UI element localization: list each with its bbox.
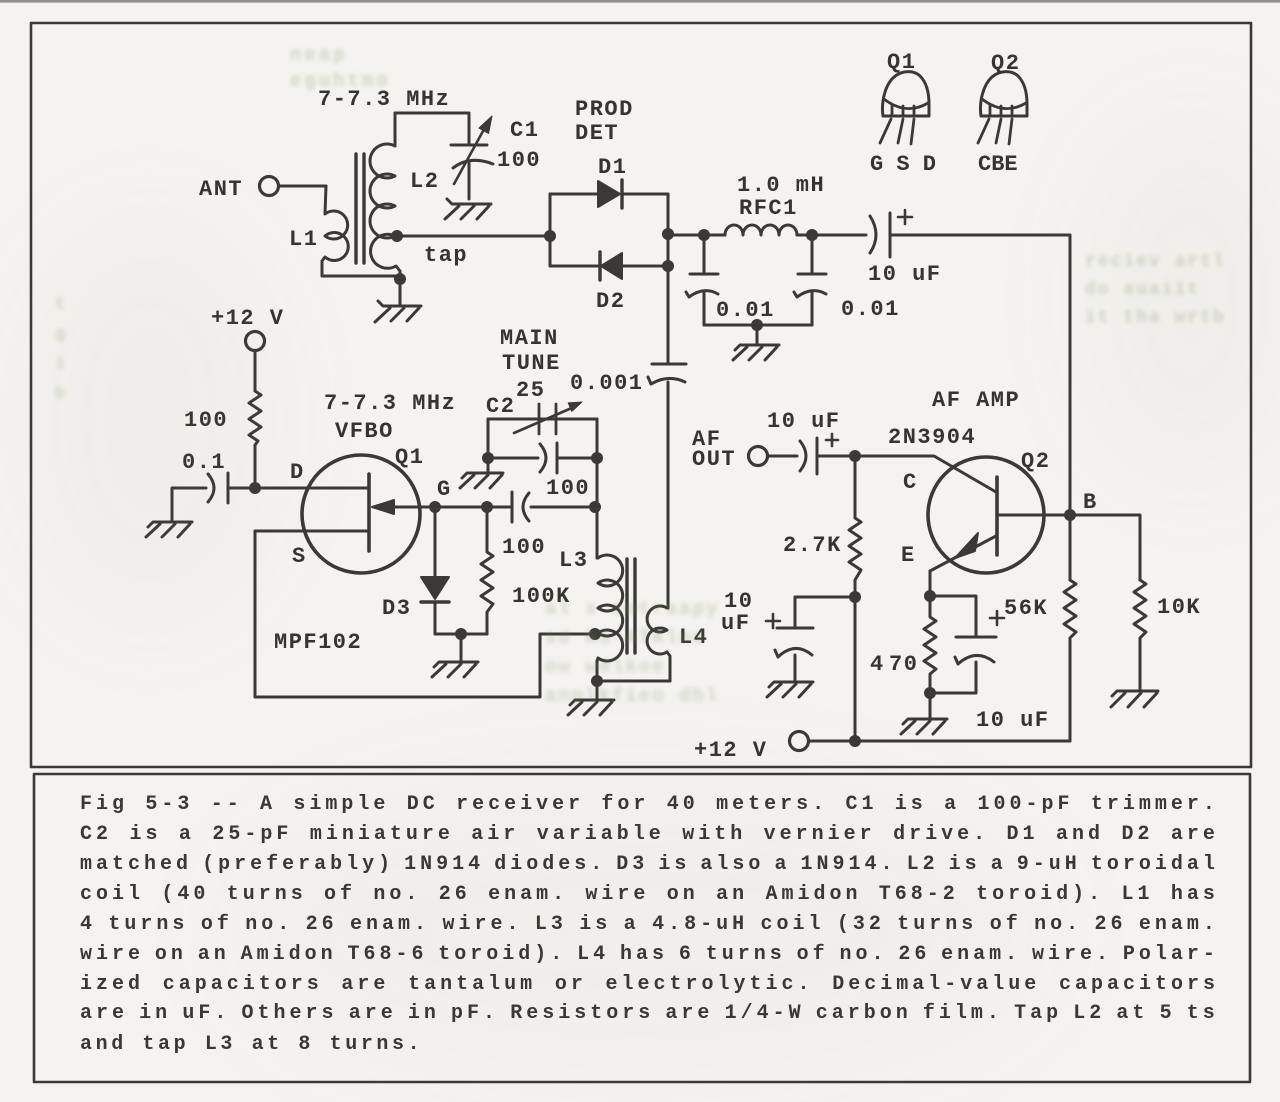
svg-text:D3: D3	[382, 596, 411, 621]
svg-text:0.001: 0.001	[570, 371, 644, 396]
wire diode ring bottom branch	[550, 265, 668, 268]
node base B	[1064, 509, 1076, 521]
svg-text:Q1: Q1	[395, 445, 424, 470]
ground below 0.01 caps	[733, 325, 779, 360]
inductor RFC1	[725, 225, 797, 235]
wire base to 10K	[1070, 515, 1140, 580]
svg-text:DET: DET	[575, 121, 619, 146]
caption line 9	[80, 1033, 1219, 1057]
resistor 10K	[1134, 580, 1146, 691]
ground below 0.1	[146, 522, 192, 537]
node bottom rail junction	[849, 735, 861, 747]
resistor 470	[924, 596, 936, 693]
svg-text:Q2: Q2	[991, 51, 1020, 76]
node AF coupling junction	[849, 450, 861, 462]
svg-text:Q1: Q1	[887, 50, 916, 75]
ground below C2	[460, 473, 503, 488]
wire L1/L2 bottom to ground	[322, 276, 400, 306]
node emitter bottom junction	[924, 687, 936, 699]
ground below 470	[901, 693, 947, 734]
svg-text:TUNE: TUNE	[502, 351, 561, 376]
caption line 4	[80, 883, 1219, 907]
ground below L3	[568, 681, 614, 715]
caption border box	[34, 774, 1250, 1082]
node L3 tap	[589, 628, 601, 640]
wire source down and feedback to L3 tap	[255, 531, 594, 697]
svg-text:100: 100	[502, 535, 546, 560]
transistor Q2 2N3904	[928, 457, 1070, 596]
transformer core L3/L4	[627, 559, 635, 653]
wire diode ring right vertical	[667, 194, 670, 364]
svg-text:25: 25	[516, 378, 545, 403]
wire L2 top to C1	[395, 113, 469, 144]
caption line 2	[80, 823, 1219, 847]
wire right rail down	[1069, 235, 1072, 580]
wire RFC1 to cap	[797, 234, 866, 237]
svg-text:10 uF: 10 uF	[976, 708, 1050, 733]
node L2 bottom junction	[394, 273, 406, 285]
ground below 10K	[1111, 691, 1158, 707]
svg-text:G S D: G S D	[870, 152, 936, 177]
svg-text:ANT: ANT	[199, 177, 243, 202]
node L2 tap	[391, 230, 403, 242]
capacitor 10 uF (VFO supply bypass)	[766, 597, 855, 682]
node 0.01 ground junction	[751, 319, 763, 331]
svg-text:tap: tap	[424, 243, 468, 268]
wire tank vertical	[596, 419, 599, 558]
wire detector output to RFC1	[668, 234, 725, 237]
wire resistor to drain node	[254, 445, 257, 488]
resistor 56K (in right rail)	[1064, 580, 1076, 651]
ground below transformer	[375, 301, 421, 322]
transistor Q1 package pictorial	[880, 72, 929, 144]
svg-text:0.01: 0.01	[716, 298, 775, 323]
svg-text:10 uF: 10 uF	[767, 409, 841, 434]
capacitor 10 uF (AF out coupling)	[768, 434, 855, 474]
page top edge scan line	[0, 0, 1280, 3]
svg-text:100: 100	[546, 476, 590, 501]
svg-text:10 uF: 10 uF	[868, 262, 942, 287]
svg-text:MAIN: MAIN	[500, 326, 559, 351]
svg-text:100: 100	[497, 148, 541, 173]
transformer core	[356, 154, 364, 263]
inductor L2	[370, 113, 400, 279]
svg-text:2N3904: 2N3904	[888, 425, 976, 450]
svg-text:C2: C2	[486, 394, 515, 419]
node diode ring right bottom	[662, 260, 674, 272]
capacitor 0.1 bypass	[172, 473, 228, 522]
node diode ring left	[544, 230, 556, 242]
capacitor C1 (trimmer)	[451, 116, 493, 199]
ground below C1	[445, 199, 491, 219]
svg-text:MPF102: MPF102	[274, 630, 362, 655]
capacitor C2 (main tune) with bracket	[488, 402, 597, 473]
wire gate to C2 node	[435, 506, 512, 509]
resistor 100 (VFO drain)	[249, 391, 261, 445]
terminal AF OUT	[749, 447, 768, 466]
node C2 right	[591, 452, 603, 464]
wire right rail bottom	[1069, 651, 1072, 741]
svg-text:L1: L1	[289, 227, 318, 252]
wire collector lead	[855, 456, 996, 492]
wire 0.01 bottom rail	[704, 324, 812, 327]
svg-text:OUT: OUT	[692, 447, 736, 472]
svg-text:56K: 56K	[1004, 596, 1048, 621]
node RFC1 left	[698, 229, 710, 241]
wire diode ring top branch	[550, 193, 668, 196]
capacitor 0.01 left	[686, 235, 718, 325]
svg-text:4: 4	[870, 652, 885, 677]
node L3 bottom	[591, 675, 603, 687]
ground below D3	[432, 634, 478, 677]
inductor L4	[647, 606, 670, 681]
svg-text:10K: 10K	[1157, 595, 1201, 620]
terminal +12V (VFO)	[246, 332, 265, 351]
wire diode ring left vertical	[549, 194, 552, 266]
node drain	[249, 482, 261, 494]
svg-text:G: G	[437, 477, 452, 502]
caption line 8	[80, 1002, 1219, 1026]
svg-text:C1: C1	[510, 118, 539, 143]
svg-text:S: S	[292, 544, 307, 569]
diode D1	[598, 180, 622, 208]
transistor Q1 MPF102	[228, 455, 435, 573]
wire +12V bottom rail	[809, 740, 1070, 743]
wire L3/L4 bottoms	[597, 661, 670, 681]
caption line 3	[80, 853, 1219, 877]
node emitter junction	[924, 590, 936, 602]
transistor Q2 package pictorial	[978, 72, 1027, 144]
svg-text:D1: D1	[598, 155, 627, 180]
node diode ring right top	[662, 228, 674, 240]
resistor 100K	[481, 507, 493, 634]
node gate D3	[429, 501, 441, 513]
svg-text:AF AMP: AF AMP	[932, 388, 1020, 413]
schematic border box	[31, 23, 1251, 767]
capacitor 10 uF coupling (detector out)	[870, 210, 1070, 257]
svg-text:L3: L3	[559, 548, 588, 573]
terminal +12V (AF)	[790, 732, 809, 751]
capacitor 100 (gate series)	[512, 492, 595, 522]
resistor 2.7K	[849, 456, 861, 741]
svg-text:7-7.3 MHz: 7-7.3 MHz	[324, 391, 456, 416]
svg-text:+12 V: +12 V	[694, 738, 768, 763]
caption line 6	[80, 943, 1219, 967]
wire D3/100K bottom	[435, 633, 487, 636]
inductor L3	[597, 555, 623, 681]
caption line 5	[80, 913, 1219, 937]
inductor L1	[322, 186, 348, 276]
node VFO tank top	[589, 501, 601, 513]
wire +12V to resistor	[254, 351, 257, 391]
ground below supply bypass	[767, 682, 813, 697]
svg-text:CBE: CBE	[978, 152, 1018, 177]
terminal ANT	[260, 177, 279, 196]
node gate 100K	[481, 501, 493, 513]
svg-text:RFC1: RFC1	[739, 196, 798, 221]
svg-text:Q2: Q2	[1021, 449, 1050, 474]
node D3 ground junction	[455, 628, 467, 640]
node RFC1 right	[806, 229, 818, 241]
svg-text:70: 70	[889, 652, 918, 677]
svg-text:D2: D2	[596, 289, 625, 314]
capacitor 10 uF (emitter bypass)	[930, 596, 1004, 693]
node C2 left	[482, 452, 494, 464]
diode D2	[600, 252, 622, 280]
svg-text:VFBO: VFBO	[335, 419, 394, 444]
node 2.7K / 10uF junction	[849, 591, 861, 603]
svg-text:E: E	[901, 543, 916, 568]
svg-text:L2: L2	[410, 169, 439, 194]
wire tap to diode ring	[397, 235, 550, 238]
svg-text:2.7K: 2.7K	[783, 533, 842, 558]
diode D3	[421, 507, 449, 634]
svg-text:D: D	[290, 460, 305, 485]
svg-text:C: C	[903, 470, 918, 495]
caption line 7	[80, 973, 1219, 997]
svg-text:0.01: 0.01	[841, 297, 900, 322]
svg-text:B: B	[1083, 490, 1098, 515]
caption line 1	[80, 793, 1219, 817]
capacitor 0.01 right	[794, 235, 826, 325]
capacitor 100 (tank divider)	[488, 443, 597, 473]
wire ANT to L1	[279, 185, 326, 188]
capacitor 0.001	[648, 364, 686, 608]
svg-text:1.0 mH: 1.0 mH	[737, 173, 825, 198]
svg-text:PROD: PROD	[575, 97, 634, 122]
